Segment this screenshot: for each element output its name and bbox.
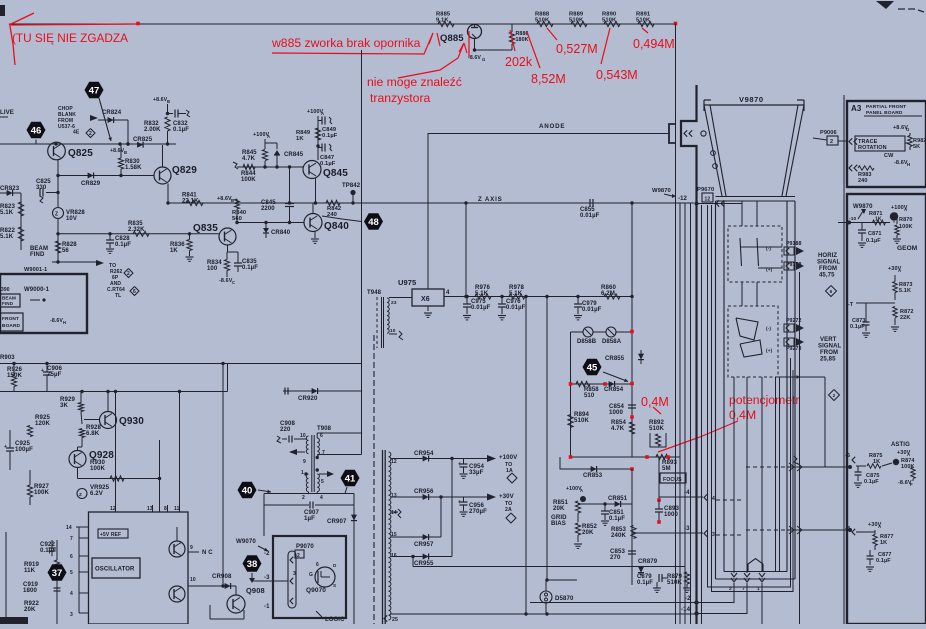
svg-text:47: 47 — [89, 85, 100, 96]
svg-text:P9070: P9070 — [296, 544, 314, 550]
svg-text:A3: A3 — [851, 104, 862, 113]
svg-text:0.1µF: 0.1µF — [609, 516, 625, 522]
svg-text:41: 41 — [345, 473, 356, 484]
svg-text:3: 3 — [70, 612, 73, 618]
svg-text:5.1K: 5.1K — [0, 209, 14, 216]
svg-text:20K: 20K — [582, 529, 594, 536]
svg-text:-8.6V: -8.6V — [50, 318, 63, 324]
svg-text:FIND: FIND — [2, 301, 14, 306]
svg-text:-1: -1 — [264, 604, 270, 610]
svg-text:45,75: 45,75 — [819, 273, 835, 279]
svg-text:20K: 20K — [553, 505, 565, 512]
svg-text:CR957: CR957 — [414, 541, 434, 548]
svg-text:CR853: CR853 — [583, 473, 603, 479]
svg-text:5.1K: 5.1K — [509, 290, 523, 297]
svg-text:-T: -T — [848, 302, 854, 308]
svg-text:ANODE: ANODE — [539, 123, 565, 130]
svg-text:0,4M: 0,4M — [641, 395, 669, 409]
svg-text:P9188: P9188 — [786, 241, 802, 247]
svg-text:S: S — [333, 583, 336, 588]
svg-text:H: H — [907, 162, 910, 167]
svg-text:G: G — [906, 127, 910, 132]
svg-text:100: 100 — [207, 266, 218, 272]
svg-text:510: 510 — [584, 393, 595, 399]
svg-text:CR879: CR879 — [638, 559, 658, 565]
svg-text:330: 330 — [36, 185, 47, 191]
svg-text:4: 4 — [70, 591, 73, 597]
svg-text:7: 7 — [322, 450, 325, 456]
svg-text:100K: 100K — [90, 465, 105, 472]
svg-text:0.1µF: 0.1µF — [866, 238, 881, 244]
svg-text:510K: 510K — [574, 417, 589, 424]
svg-text:270: 270 — [610, 554, 621, 561]
svg-text:0.01µF: 0.01µF — [471, 305, 491, 311]
svg-text:40: 40 — [242, 485, 253, 496]
svg-text:11K: 11K — [24, 567, 36, 574]
svg-text:12: 12 — [391, 459, 397, 465]
svg-text:5: 5 — [70, 570, 73, 576]
svg-text:14: 14 — [391, 510, 397, 516]
svg-text:G: G — [309, 572, 313, 578]
svg-text:D858A: D858A — [602, 339, 622, 345]
svg-text:240: 240 — [858, 178, 867, 184]
svg-text:Q908: Q908 — [246, 586, 265, 595]
svg-text:12: 12 — [110, 506, 116, 512]
svg-text:(-): (-) — [766, 246, 771, 252]
svg-text:+8.6V: +8.6V — [153, 97, 168, 103]
svg-text:4.7K: 4.7K — [242, 156, 256, 162]
svg-text:0.1µF: 0.1µF — [242, 265, 258, 271]
svg-text:(+): (+) — [766, 267, 773, 273]
svg-text:C: C — [232, 280, 235, 285]
svg-text:6.2V: 6.2V — [90, 490, 104, 497]
svg-text:Z: Z — [79, 492, 82, 497]
svg-text:510K: 510K — [535, 18, 550, 24]
svg-text:X6: X6 — [421, 296, 430, 303]
svg-text:B: B — [124, 150, 127, 155]
svg-text:10V: 10V — [66, 216, 77, 222]
svg-text:(-): (-) — [766, 326, 771, 332]
svg-text:N C: N C — [202, 550, 213, 556]
svg-text:14: 14 — [66, 525, 72, 531]
svg-text:D858B: D858B — [577, 339, 597, 345]
svg-text:8,52M: 8,52M — [531, 72, 566, 86]
svg-text:Q9070: Q9070 — [306, 587, 326, 594]
svg-text:PARTIAL FRONT: PARTIAL FRONT — [866, 104, 906, 110]
svg-text:D5870: D5870 — [555, 595, 574, 602]
svg-text:CR855: CR855 — [605, 356, 625, 362]
svg-text:46: 46 — [31, 125, 42, 136]
svg-text:FRONT: FRONT — [2, 316, 19, 322]
svg-text:-8.6V: -8.6V — [894, 160, 908, 166]
svg-text:W9001-1: W9001-1 — [24, 267, 47, 273]
svg-text:+5V REF: +5V REF — [100, 532, 121, 538]
svg-text:CR824: CR824 — [102, 110, 122, 116]
svg-text:-14: -14 — [681, 606, 691, 613]
svg-text:CR854: CR854 — [604, 387, 624, 393]
svg-text:+: + — [41, 368, 44, 374]
svg-text:+100V: +100V — [499, 454, 518, 461]
svg-text:T908: T908 — [317, 426, 332, 432]
svg-text:0.1µF: 0.1µF — [637, 580, 653, 586]
svg-text:1000: 1000 — [609, 409, 623, 416]
svg-text:22K: 22K — [900, 315, 910, 321]
svg-text:V9870: V9870 — [739, 95, 764, 104]
svg-text:6: 6 — [830, 289, 833, 294]
svg-text:0,543M: 0,543M — [596, 68, 638, 82]
svg-text:1K: 1K — [170, 248, 178, 254]
svg-text:CR908: CR908 — [212, 573, 232, 580]
svg-text:4: 4 — [712, 496, 715, 502]
svg-text:U975: U975 — [398, 278, 416, 287]
svg-text:SIGNAL: SIGNAL — [817, 260, 841, 266]
svg-text:1K: 1K — [873, 459, 880, 465]
svg-text:3K: 3K — [60, 402, 68, 409]
svg-text:5M: 5M — [662, 465, 671, 472]
svg-text:13: 13 — [391, 493, 397, 499]
svg-text:6.8K: 6.8K — [86, 430, 100, 437]
svg-text:R903: R903 — [0, 355, 15, 361]
svg-text:510K: 510K — [636, 18, 651, 24]
svg-text:1: 1 — [301, 470, 304, 476]
svg-text:10: 10 — [190, 577, 196, 583]
svg-text:CR907: CR907 — [327, 518, 347, 525]
svg-text:2: 2 — [833, 393, 836, 398]
svg-text:510K: 510K — [649, 425, 664, 432]
svg-text:CR823: CR823 — [0, 186, 20, 192]
svg-text:(+): (+) — [766, 348, 773, 354]
svg-text:22.1K: 22.1K — [182, 199, 199, 205]
svg-text:F: F — [910, 482, 913, 487]
svg-text:-5: -5 — [845, 453, 850, 459]
svg-text:BEAM: BEAM — [2, 296, 16, 301]
svg-text:2200: 2200 — [261, 206, 275, 212]
svg-text:2: 2 — [127, 271, 130, 277]
svg-text:-12: -12 — [678, 196, 688, 202]
svg-text:Q845: Q845 — [323, 168, 348, 179]
svg-text:D: D — [333, 563, 337, 568]
svg-text:BIAS: BIAS — [551, 520, 566, 527]
svg-text:270µF: 270µF — [469, 508, 487, 515]
svg-text:+8.6V: +8.6V — [110, 148, 125, 154]
svg-text:A: A — [267, 134, 270, 139]
svg-text:PANEL BOARD: PANEL BOARD — [866, 110, 903, 116]
svg-text:potencjometr: potencjometr — [729, 393, 799, 407]
svg-text:Q825: Q825 — [68, 148, 93, 159]
svg-text:nie moge znaleźć: nie moge znaleźć — [367, 75, 462, 89]
svg-text:6: 6 — [133, 289, 136, 295]
svg-text:4: 4 — [320, 495, 323, 501]
svg-text:100µF: 100µF — [15, 446, 33, 453]
svg-text:100K: 100K — [34, 489, 49, 496]
svg-text:FOCUS: FOCUS — [663, 477, 682, 483]
svg-text:FROM: FROM — [820, 350, 838, 356]
svg-text:100K: 100K — [899, 224, 913, 230]
svg-text:11: 11 — [174, 506, 180, 512]
svg-text:CR955: CR955 — [414, 560, 434, 567]
svg-text:BOARD: BOARD — [2, 323, 21, 329]
svg-text:0,527M: 0,527M — [556, 42, 598, 56]
svg-text:5.1K: 5.1K — [475, 290, 489, 297]
svg-text:5K: 5K — [913, 144, 920, 150]
svg-text:180K: 180K — [516, 37, 529, 43]
svg-text:37: 37 — [52, 568, 63, 579]
svg-text:5: 5 — [321, 479, 324, 485]
svg-text:5.1K: 5.1K — [899, 288, 911, 294]
svg-text:OSCILLATOR: OSCILLATOR — [95, 567, 135, 573]
svg-text:4.7K: 4.7K — [611, 425, 625, 432]
svg-text:390: 390 — [1, 287, 10, 293]
svg-text:VERT: VERT — [820, 337, 837, 343]
svg-text:2: 2 — [297, 553, 300, 559]
svg-text:25: 25 — [392, 617, 398, 623]
svg-text:A: A — [580, 488, 583, 493]
svg-text:Q840: Q840 — [324, 221, 349, 232]
svg-text:B: B — [231, 198, 234, 203]
svg-text:0.01µF: 0.01µF — [582, 307, 602, 313]
svg-text:1800: 1800 — [23, 587, 37, 594]
svg-text:8: 8 — [164, 506, 167, 512]
svg-text:Z: Z — [55, 212, 58, 218]
svg-text:CW: CW — [884, 153, 894, 159]
svg-text:Z AXIS: Z AXIS — [478, 196, 503, 203]
svg-text:33µF: 33µF — [469, 469, 484, 476]
svg-text:100K: 100K — [241, 177, 256, 183]
svg-text:GEOM: GEOM — [897, 245, 917, 252]
svg-text:48: 48 — [368, 217, 379, 228]
svg-text:9: 9 — [303, 459, 306, 465]
svg-text:56: 56 — [62, 248, 69, 254]
svg-text:CR851: CR851 — [608, 496, 628, 502]
svg-text:1µF: 1µF — [304, 515, 315, 522]
svg-text:0.1µF: 0.1µF — [173, 127, 189, 133]
svg-text:38: 38 — [247, 559, 258, 570]
svg-text:120K: 120K — [35, 420, 50, 427]
svg-text:P9670: P9670 — [697, 187, 714, 193]
svg-text:tranzystora: tranzystora — [370, 91, 431, 105]
svg-text:4E: 4E — [73, 130, 80, 136]
svg-text:3: 3 — [712, 532, 715, 538]
svg-text:w885 zworka brak opornika: w885 zworka brak opornika — [271, 36, 421, 50]
svg-text:12: 12 — [705, 197, 711, 203]
svg-text:0.1µF: 0.1µF — [115, 242, 131, 248]
svg-text:CR840: CR840 — [271, 230, 291, 236]
svg-text:23: 23 — [391, 300, 397, 306]
svg-text:0.1µF: 0.1µF — [320, 161, 336, 167]
svg-text:0,494M: 0,494M — [633, 37, 675, 51]
svg-text:2: 2 — [89, 131, 92, 137]
svg-text:9: 9 — [190, 545, 193, 551]
svg-text:FIND: FIND — [30, 252, 45, 258]
svg-text:2.00K: 2.00K — [144, 127, 161, 133]
svg-text:-2: -2 — [264, 551, 270, 557]
svg-text:Q835: Q835 — [193, 223, 218, 234]
svg-text:Q930: Q930 — [119, 416, 144, 427]
svg-text:2.32K: 2.32K — [128, 227, 145, 233]
svg-text:CR920: CR920 — [298, 395, 318, 402]
svg-text:220: 220 — [280, 426, 291, 433]
svg-text:A: A — [321, 111, 324, 116]
svg-text:-8.6V: -8.6V — [219, 278, 233, 284]
svg-text:ASTIG: ASTIG — [891, 442, 910, 448]
svg-text:SIGNAL: SIGNAL — [818, 344, 842, 350]
svg-text:LIVE: LIVE — [0, 109, 14, 116]
svg-text:+: + — [4, 444, 7, 450]
svg-text:CR956: CR956 — [414, 488, 434, 495]
svg-text:CR954: CR954 — [414, 450, 434, 457]
svg-text:-10: -10 — [849, 216, 856, 222]
svg-text:-8.6V: -8.6V — [468, 55, 481, 61]
svg-text:3: 3 — [293, 571, 296, 577]
svg-text:2A: 2A — [505, 507, 512, 513]
svg-text:W9070: W9070 — [236, 538, 256, 545]
svg-text:1K: 1K — [296, 136, 304, 142]
svg-text:+8.6V: +8.6V — [217, 196, 232, 202]
svg-text:HORIZ: HORIZ — [818, 253, 837, 259]
svg-text:510K: 510K — [602, 18, 617, 24]
svg-text:0.01µF: 0.01µF — [506, 305, 526, 311]
svg-text:+30V: +30V — [499, 493, 515, 500]
svg-text:CR845: CR845 — [284, 152, 304, 158]
svg-text:25,85: 25,85 — [820, 357, 836, 363]
svg-text:W9870: W9870 — [652, 188, 671, 194]
svg-text:0.1µF: 0.1µF — [864, 479, 879, 485]
svg-text:6: 6 — [320, 433, 323, 439]
svg-text:W9000-1: W9000-1 — [24, 287, 50, 293]
svg-text:1000: 1000 — [664, 511, 678, 518]
svg-text:T948: T948 — [367, 290, 382, 296]
svg-text:6: 6 — [70, 554, 73, 560]
svg-text:CR829: CR829 — [81, 181, 101, 187]
svg-text:0,4M: 0,4M — [729, 408, 756, 422]
svg-text:G: G — [482, 57, 485, 62]
svg-text:9.1K: 9.1K — [436, 18, 449, 24]
svg-text:TL: TL — [115, 293, 121, 299]
svg-text:B: B — [167, 99, 170, 104]
svg-text:-8: -8 — [845, 526, 850, 532]
svg-text:1.58K: 1.58K — [125, 165, 142, 171]
svg-text:510K: 510K — [569, 18, 584, 24]
svg-text:20K: 20K — [24, 606, 36, 613]
svg-text:FROM: FROM — [819, 266, 837, 272]
svg-text:-3: -3 — [264, 575, 270, 581]
svg-text:7: 7 — [70, 536, 73, 542]
svg-text:1K: 1K — [880, 540, 887, 546]
svg-text:C871: C871 — [868, 231, 882, 237]
svg-text:Q829: Q829 — [172, 165, 197, 176]
svg-text:0.1µF: 0.1µF — [322, 133, 338, 139]
svg-text:240K: 240K — [611, 532, 626, 539]
svg-text:10: 10 — [300, 433, 306, 439]
svg-text:ROTATION: ROTATION — [858, 145, 887, 151]
svg-text:P9006: P9006 — [820, 130, 837, 136]
svg-text:TP842: TP842 — [342, 183, 361, 189]
svg-text:2: 2 — [830, 139, 833, 145]
svg-text:4: 4 — [446, 289, 450, 296]
svg-text:5.1K: 5.1K — [0, 233, 14, 240]
svg-text:Q885: Q885 — [440, 33, 464, 44]
svg-text:6.2M: 6.2M — [601, 290, 615, 297]
svg-text:45: 45 — [587, 362, 598, 373]
svg-text:202k: 202k — [505, 55, 533, 69]
svg-text:H: H — [63, 320, 66, 325]
svg-text:0.1µF: 0.1µF — [876, 558, 891, 564]
svg-text:6: 6 — [316, 562, 319, 568]
svg-text:(TU SIĘ NIE ZGADZA: (TU SIĘ NIE ZGADZA — [12, 31, 128, 45]
svg-text:0.01µF: 0.01µF — [580, 213, 600, 219]
svg-text:13: 13 — [147, 506, 153, 512]
svg-text:10: 10 — [390, 328, 396, 334]
svg-text:R870: R870 — [899, 217, 913, 223]
svg-text:2: 2 — [302, 495, 305, 501]
